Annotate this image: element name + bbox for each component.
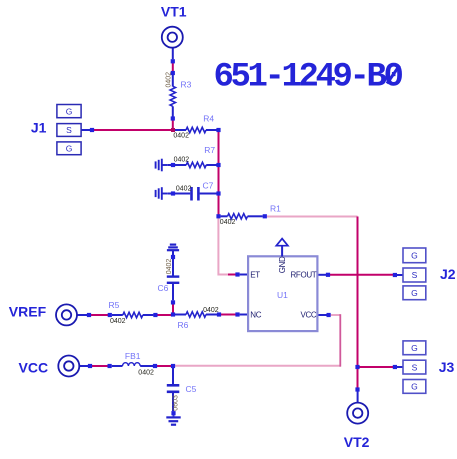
svg-text:0603: 0603 [172,395,179,411]
svg-text:651-1249-B0: 651-1249-B0 [214,59,403,97]
svg-text:G: G [66,106,73,116]
svg-text:G: G [411,343,418,353]
svg-text:C5: C5 [186,384,197,394]
svg-text:R7: R7 [204,145,215,155]
svg-text:VCC: VCC [300,311,316,320]
svg-text:S: S [66,125,72,135]
svg-text:J1: J1 [31,119,47,135]
svg-text:0402: 0402 [165,72,172,88]
svg-text:0402: 0402 [220,219,236,226]
svg-text:RFOUT: RFOUT [290,271,316,280]
svg-text:G: G [411,251,418,261]
svg-text:G: G [411,288,418,298]
svg-text:R5: R5 [109,300,120,310]
svg-text:0402: 0402 [166,259,173,275]
svg-text:ET: ET [250,271,260,280]
svg-text:R4: R4 [203,114,214,124]
svg-text:R1: R1 [270,204,281,214]
svg-text:VT1: VT1 [161,3,187,19]
svg-text:GND: GND [278,256,287,273]
svg-text:FB1: FB1 [125,351,141,361]
svg-text:VCC: VCC [19,360,49,376]
svg-text:NC: NC [250,311,261,320]
svg-text:VT2: VT2 [344,434,370,450]
svg-text:0402: 0402 [176,185,192,192]
svg-text:R6: R6 [178,320,189,330]
svg-text:0402: 0402 [174,157,190,164]
svg-text:J2: J2 [440,266,456,282]
svg-text:VREF: VREF [9,303,47,319]
svg-text:C6: C6 [158,283,169,293]
svg-text:0402: 0402 [110,318,126,325]
svg-text:C7: C7 [203,181,214,191]
svg-text:R3: R3 [181,79,192,89]
svg-text:0402: 0402 [138,370,154,377]
svg-text:S: S [412,270,418,280]
svg-text:G: G [66,144,73,154]
svg-text:0402: 0402 [173,132,189,139]
svg-text:0402: 0402 [203,307,219,314]
svg-text:G: G [411,382,418,392]
svg-text:J3: J3 [439,359,455,375]
svg-text:U1: U1 [277,290,288,300]
svg-text:S: S [412,362,418,372]
